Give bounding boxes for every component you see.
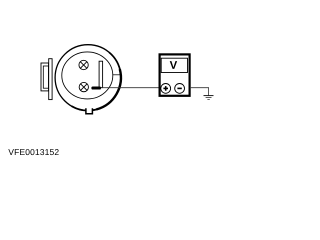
wire W1 from probe to voltmeter — [95, 87, 159, 89]
connector C1 outer shell shading arc — [72, 52, 121, 110]
connector C1 shell shading arc 2 — [97, 69, 121, 109]
figure number VFE0013152 — [8, 149, 58, 155]
pin 2 (bottom) crossed circle — [79, 82, 88, 91]
connector index tick — [113, 74, 121, 76]
connector C1 side flange — [49, 59, 52, 100]
ground G1 — [204, 96, 214, 100]
connector C1 mounting tab inner — [43, 66, 48, 88]
test probe bar on pin 2 — [91, 87, 101, 90]
pin 1 (top) crossed circle — [79, 60, 88, 69]
connector keyway slot — [99, 61, 103, 87]
voltmeter display window — [161, 58, 187, 72]
connector C1 outer shell circle — [55, 45, 121, 111]
connector C1 inner face ring — [62, 52, 113, 99]
voltmeter V label — [170, 61, 177, 69]
wire W2 from voltmeter to ground — [191, 88, 209, 96]
voltmeter + terminal — [161, 84, 171, 94]
connector C1 mounting tab outer — [41, 63, 49, 91]
connector C1 bottom key tab — [86, 108, 93, 114]
voltmeter V1 body — [160, 54, 190, 95]
voltmeter - terminal — [175, 84, 185, 94]
